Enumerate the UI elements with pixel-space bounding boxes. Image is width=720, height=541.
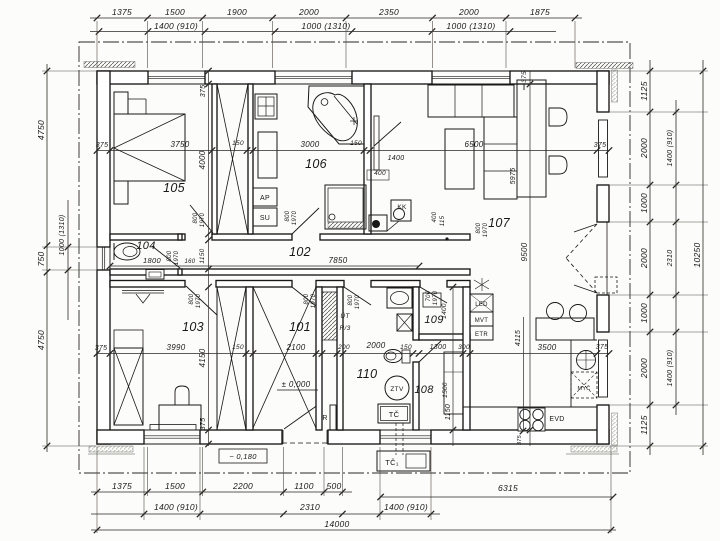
wall between 101 and shaft xyxy=(316,287,322,430)
svg-text:± 0,000: ± 0,000 xyxy=(282,380,311,389)
svg-text:800: 800 xyxy=(348,294,354,305)
svg-text:1150: 1150 xyxy=(199,248,206,263)
svg-text:9500: 9500 xyxy=(520,242,529,261)
terrace door swing dashed xyxy=(566,224,597,258)
svg-text:TČ₁: TČ₁ xyxy=(385,458,399,467)
svg-text:1400 (910): 1400 (910) xyxy=(667,350,674,387)
svg-text:1400: 1400 xyxy=(388,155,405,162)
door 101 xyxy=(292,287,316,306)
svg-text:1125: 1125 xyxy=(639,415,649,434)
door 106 xyxy=(292,208,319,234)
wardrobe X room 101 xyxy=(253,287,316,428)
window sash right wall upper xyxy=(599,120,608,177)
svg-text:− 0,180: − 0,180 xyxy=(229,452,257,461)
chair room 103 xyxy=(175,386,189,405)
plinth stipple bottom-left xyxy=(89,446,133,452)
closet corner lines 105 xyxy=(128,98,146,100)
svg-text:104: 104 xyxy=(136,240,155,252)
svg-text:500: 500 xyxy=(326,481,341,491)
bottom extension lines xyxy=(96,447,98,496)
ZTV circle xyxy=(385,376,409,400)
chair 107 upper xyxy=(549,108,567,126)
wall pier stub top 107 xyxy=(513,84,515,90)
top dimension chain 1 xyxy=(90,17,582,19)
svg-text:1970: 1970 xyxy=(355,294,361,309)
corner bathtub 106 xyxy=(308,86,364,144)
outer wall: left xyxy=(97,71,110,247)
bottom dimension chain 1 xyxy=(91,491,352,493)
svg-text:800: 800 xyxy=(189,293,195,304)
cabinet 110 xyxy=(397,314,412,331)
TC unit outdoor xyxy=(377,451,430,471)
svg-text:ETR: ETR xyxy=(475,332,488,338)
window sash right wall lower xyxy=(599,340,608,397)
chair 107 lower xyxy=(549,156,567,174)
svg-text:115: 115 xyxy=(440,215,446,226)
toilet room 104 xyxy=(114,243,140,260)
left extension lines xyxy=(42,70,96,72)
svg-text:6315: 6315 xyxy=(498,483,518,493)
wall east of 109/108 (kitchen side) xyxy=(463,287,470,430)
svg-text:1000 (1310): 1000 (1310) xyxy=(446,21,495,31)
svg-text:375: 375 xyxy=(96,142,109,149)
svg-text:102: 102 xyxy=(289,245,311,259)
svg-text:KK: KK xyxy=(397,204,407,211)
svg-text:2310: 2310 xyxy=(667,250,674,268)
svg-text:160: 160 xyxy=(185,259,196,265)
svg-text:4150: 4150 xyxy=(198,348,207,367)
svg-text:700: 700 xyxy=(426,290,432,301)
svg-text:2100: 2100 xyxy=(286,343,306,352)
SU cabinet xyxy=(253,208,277,226)
svg-text:2200: 2200 xyxy=(232,481,253,491)
wall between shaft and 110 xyxy=(337,287,343,430)
svg-text:1970: 1970 xyxy=(200,212,206,227)
svg-text:6500: 6500 xyxy=(465,140,484,149)
svg-text:R/3: R/3 xyxy=(339,325,350,332)
wall corridor top (south wall of 105/106/107-nook) xyxy=(110,234,185,240)
left dimension chain outer xyxy=(46,64,48,452)
svg-text:750: 750 xyxy=(36,251,46,266)
coffee table 107 xyxy=(445,129,474,189)
svg-text:1125: 1125 xyxy=(639,81,649,100)
radiator under window 103 xyxy=(150,425,196,431)
cabinet 106 xyxy=(258,132,277,178)
svg-text:375: 375 xyxy=(594,142,607,149)
svg-text:2310: 2310 xyxy=(299,502,320,512)
bottom dimension chain total 14000 xyxy=(91,529,616,531)
svg-text:MYČ: MYČ xyxy=(577,385,590,392)
svg-text:2000: 2000 xyxy=(639,248,649,269)
shelf room 109 xyxy=(423,293,441,307)
svg-text:1000: 1000 xyxy=(639,303,649,323)
washbasin 106 xyxy=(255,94,277,119)
built-in wardrobe next to 105 xyxy=(217,84,248,234)
svg-text:800: 800 xyxy=(193,212,199,223)
svg-text:3000: 3000 xyxy=(301,140,320,149)
svg-text:3990: 3990 xyxy=(167,343,186,352)
svg-text:1400 (910): 1400 (910) xyxy=(154,502,198,512)
svg-text:108: 108 xyxy=(414,384,434,396)
bar table xyxy=(536,318,594,340)
dining table 107 xyxy=(517,80,546,197)
door 110 xyxy=(344,287,371,305)
window top wall room 107 xyxy=(432,70,510,72)
radiator nook xyxy=(374,116,379,170)
svg-text:7850: 7850 xyxy=(329,256,348,265)
kitchen counter right xyxy=(570,340,572,407)
svg-text:R: R xyxy=(322,415,327,422)
electrical panel R xyxy=(330,405,336,430)
bed room 105 xyxy=(114,114,185,181)
shelf room 103 xyxy=(122,290,164,292)
svg-text:TČ: TČ xyxy=(389,410,400,419)
main entrance door opening xyxy=(281,430,283,444)
sofa right room 107 xyxy=(484,117,517,199)
svg-text:150: 150 xyxy=(350,140,362,147)
svg-text:1800: 1800 xyxy=(143,256,161,265)
door 104 xyxy=(152,246,180,268)
svg-text:3500: 3500 xyxy=(538,343,557,352)
top extension lines xyxy=(96,21,98,68)
window top wall room 105 xyxy=(148,70,205,72)
kitchen counter bottom xyxy=(463,406,597,408)
interior vertical chain x530 xyxy=(529,71,531,446)
outer wall: bottom segments xyxy=(97,430,144,444)
svg-text:2000: 2000 xyxy=(458,7,479,17)
svg-text:1375: 1375 xyxy=(112,7,132,17)
interior vertical chain x208 xyxy=(208,71,210,446)
interior horizontal chain upper y150 xyxy=(97,150,609,152)
svg-text:3750: 3750 xyxy=(171,140,190,149)
right dimension chain A xyxy=(649,60,651,455)
wall between 109 and 108 xyxy=(419,334,470,340)
bar stool 1 xyxy=(547,303,564,320)
svg-text:375: 375 xyxy=(200,418,207,431)
svg-text:AP: AP xyxy=(260,195,270,202)
svg-text:1970: 1970 xyxy=(292,210,298,225)
svg-text:1970: 1970 xyxy=(196,293,202,308)
svg-text:4750: 4750 xyxy=(36,120,46,140)
svg-text:1000: 1000 xyxy=(639,193,649,213)
svg-text:800: 800 xyxy=(476,222,482,233)
svg-text:1970: 1970 xyxy=(174,250,180,265)
svg-text:EVD: EVD xyxy=(549,416,564,423)
svg-text:110: 110 xyxy=(357,367,378,381)
svg-text:1500: 1500 xyxy=(165,7,185,17)
AP cabinet xyxy=(253,188,277,206)
svg-text:1970: 1970 xyxy=(483,222,489,237)
svg-text:105: 105 xyxy=(163,181,185,195)
outer wall: top, segments between windows xyxy=(97,71,148,84)
boiler room 108 xyxy=(444,352,463,414)
stove EVD xyxy=(518,408,545,431)
svg-text:1375: 1375 xyxy=(112,481,132,491)
svg-text:1150: 1150 xyxy=(445,404,452,420)
svg-text:1300: 1300 xyxy=(430,344,447,351)
svg-text:4750: 4750 xyxy=(36,330,46,350)
interior vertical chain kitchen x523 xyxy=(523,317,525,430)
svg-text:375: 375 xyxy=(596,344,609,351)
svg-text:200: 200 xyxy=(337,344,350,351)
wall between wardrobe and 106 xyxy=(248,84,253,234)
radiator 104 xyxy=(146,270,164,280)
door 109 xyxy=(420,287,447,303)
svg-text:150: 150 xyxy=(400,344,412,351)
kitchen tall cabinets LED/MVT/ETR xyxy=(470,294,493,312)
top dimension chain 2 (window sizes) xyxy=(90,31,556,33)
door 105 xyxy=(190,205,213,233)
svg-text:375: 375 xyxy=(200,85,207,98)
door 108 xyxy=(419,341,441,362)
svg-text:ÚT: ÚT xyxy=(340,311,350,320)
svg-text:1400 (910): 1400 (910) xyxy=(667,130,674,167)
main entrance door swing xyxy=(284,402,322,429)
TC pipes dashed xyxy=(395,423,397,455)
window bottom wall room 110 xyxy=(380,429,431,431)
svg-text:400: 400 xyxy=(374,170,386,177)
door nook to 107 xyxy=(374,122,401,146)
svg-text:375: 375 xyxy=(517,434,523,445)
shaft hatch xyxy=(322,292,337,340)
built-in wardrobe room 103 xyxy=(217,287,246,430)
plinth stipple top-left xyxy=(84,62,135,68)
corridor length chain xyxy=(110,265,419,267)
svg-text:1875: 1875 xyxy=(530,7,550,17)
plinth stipple bottom-right horizontal xyxy=(571,446,617,452)
nightstand 105 lower xyxy=(114,181,128,204)
wall corridor bottom band 2 (north wall of 103/101/110/109) xyxy=(110,281,185,288)
svg-text:10250: 10250 xyxy=(692,242,702,267)
svg-text:103: 103 xyxy=(182,320,204,334)
svg-text:2350: 2350 xyxy=(378,7,399,17)
wall corridor bottom band 1 xyxy=(110,269,470,275)
KK stove box xyxy=(391,200,411,221)
outer wall: right segments xyxy=(597,71,609,112)
svg-text:375: 375 xyxy=(521,71,528,83)
svg-text:MVT: MVT xyxy=(475,318,489,324)
svg-text:1000 (1310): 1000 (1310) xyxy=(59,214,66,255)
nightstand 105 upper xyxy=(114,92,128,114)
wall between 105 and wardrobe xyxy=(212,84,217,234)
svg-text:375: 375 xyxy=(95,345,108,352)
svg-text:2000: 2000 xyxy=(366,341,386,350)
plinth stipple right-top corner vertical xyxy=(612,70,618,102)
window top wall room 106 xyxy=(275,70,352,72)
svg-text:800: 800 xyxy=(167,250,173,261)
window left wall room 104 xyxy=(96,247,98,270)
bar stool 2 xyxy=(570,305,587,322)
terrace door opening right wall xyxy=(597,221,609,223)
svg-text:1900: 1900 xyxy=(227,7,247,17)
right extension lines xyxy=(610,70,708,72)
svg-text:800: 800 xyxy=(285,210,291,221)
window bottom wall room 103 xyxy=(144,429,200,431)
svg-text:4000: 4000 xyxy=(198,150,207,169)
plinth stipple bottom-right vertical xyxy=(612,413,618,445)
svg-text:1500: 1500 xyxy=(442,382,449,398)
door 103 xyxy=(186,286,217,315)
right dimension chain B (windows) xyxy=(675,100,677,415)
left dimension chain inner (window) xyxy=(67,200,69,320)
svg-text:2000: 2000 xyxy=(639,358,649,379)
door jamb room 104 xyxy=(178,234,182,240)
fireplace box xyxy=(369,215,387,231)
dishwasher MYC dashed xyxy=(571,372,597,398)
svg-text:SU: SU xyxy=(260,215,270,222)
round sink xyxy=(577,351,596,370)
svg-text:2000: 2000 xyxy=(298,7,319,17)
bed room 103 xyxy=(114,348,143,425)
interior horizontal chain lower y353 xyxy=(97,353,609,355)
svg-text:400: 400 xyxy=(432,211,438,222)
bottom dimension chain 6315 xyxy=(381,496,613,498)
svg-text:1000 (1310): 1000 (1310) xyxy=(301,21,350,31)
wall between 103 and 101 xyxy=(246,287,253,430)
washbasin 110 xyxy=(387,288,412,308)
svg-text:1970: 1970 xyxy=(311,293,317,308)
roof outline dash-dot boundary xyxy=(79,42,630,473)
svg-text:ZTV: ZTV xyxy=(390,386,404,393)
svg-text:1100: 1100 xyxy=(294,481,313,491)
svg-text:1500: 1500 xyxy=(165,481,185,491)
svg-text:14000: 14000 xyxy=(324,519,349,529)
desk room 103 xyxy=(159,405,201,430)
wall between 106 and 107 nook xyxy=(364,84,371,234)
svg-text:107: 107 xyxy=(488,216,511,230)
svg-text:150: 150 xyxy=(232,140,244,147)
svg-text:2000: 2000 xyxy=(639,138,649,159)
svg-text:1400: 1400 xyxy=(441,303,448,319)
svg-text:4115: 4115 xyxy=(515,330,522,346)
svg-text:150: 150 xyxy=(232,344,244,351)
svg-text:101: 101 xyxy=(289,320,311,334)
svg-text:300: 300 xyxy=(458,344,470,351)
svg-text:800: 800 xyxy=(304,293,310,304)
wall between 110 and 109/108 xyxy=(413,287,419,340)
svg-text:106: 106 xyxy=(305,157,327,171)
plinth stipple top-right xyxy=(576,63,633,69)
svg-text:1970: 1970 xyxy=(433,290,439,305)
interior vertical chain x453 xyxy=(452,287,454,446)
sofa top room 107 xyxy=(428,85,514,117)
level mark -0,180 xyxy=(219,449,267,463)
svg-text:1400 (910): 1400 (910) xyxy=(384,502,428,512)
shower 106 xyxy=(325,185,366,229)
TC unit indoor xyxy=(378,404,410,423)
dashed shutter box right wall xyxy=(595,277,617,293)
toilet room 110 xyxy=(384,350,402,363)
bottom dimension chain 2 (openings) xyxy=(91,513,440,515)
svg-text:1400 (910): 1400 (910) xyxy=(154,21,198,31)
svg-text:5975: 5975 xyxy=(510,168,517,185)
right dimension chain C (total) xyxy=(702,60,704,455)
